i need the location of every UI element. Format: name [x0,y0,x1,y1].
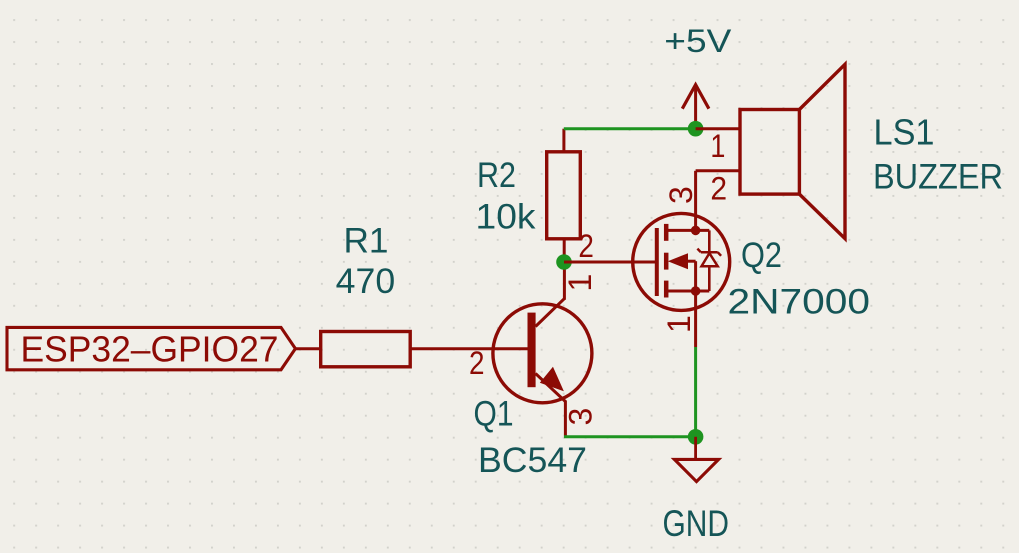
svg-text:1: 1 [661,315,697,333]
svg-text:BC547: BC547 [478,441,587,480]
junction at ground node [688,429,704,445]
svg-text:Q1: Q1 [474,395,514,434]
svg-text:2: 2 [469,345,485,381]
svg-text:Q2: Q2 [741,236,782,275]
resistor R1 [321,332,411,367]
transistor Q1 BC547 [493,298,592,403]
svg-text:ESP32–GPIO27: ESP32–GPIO27 [21,329,279,370]
ground symbol GND [674,437,718,482]
wire gate node to Q2 gate [564,261,655,264]
svg-text:470: 470 [336,262,396,301]
wire Q1 emitter to ground node [564,435,696,438]
wire R1 to Q1 base [410,347,528,350]
svg-text:3: 3 [563,408,599,426]
hierarchical label ESP32-GPIO27 [7,327,295,369]
wire R2 top to +5V rail [564,127,696,130]
power symbol +5V [682,85,709,129]
svg-text:R1: R1 [344,221,389,260]
svg-text:1: 1 [710,128,725,164]
buzzer LS1 [696,64,845,238]
svg-text:R2: R2 [477,156,516,195]
Q2 drain pin wire [694,171,697,231]
resistor R2 [547,129,581,262]
wire Q2 source to ground node [694,347,697,437]
Q2 source pin wire [694,291,697,347]
svg-text:2: 2 [710,171,727,207]
svg-text:GND: GND [663,503,730,544]
svg-text:3: 3 [663,186,699,204]
junction at +5V rail [688,121,704,137]
svg-text:10k: 10k [476,197,537,236]
svg-text:2: 2 [578,228,594,264]
Q1 collector pin wire [563,262,566,300]
wire hierarchical label to resistor R1 [295,347,320,350]
transistor Q2 2N7000 [633,213,730,310]
svg-text:BUZZER: BUZZER [873,158,1003,197]
svg-text:+5V: +5V [664,23,732,59]
svg-text:2N7000: 2N7000 [728,282,871,321]
svg-text:1: 1 [562,274,598,292]
junction at R2 bottom gate node [556,254,572,270]
svg-text:LS1: LS1 [874,112,935,153]
Q1 emitter pin wire [564,401,567,437]
